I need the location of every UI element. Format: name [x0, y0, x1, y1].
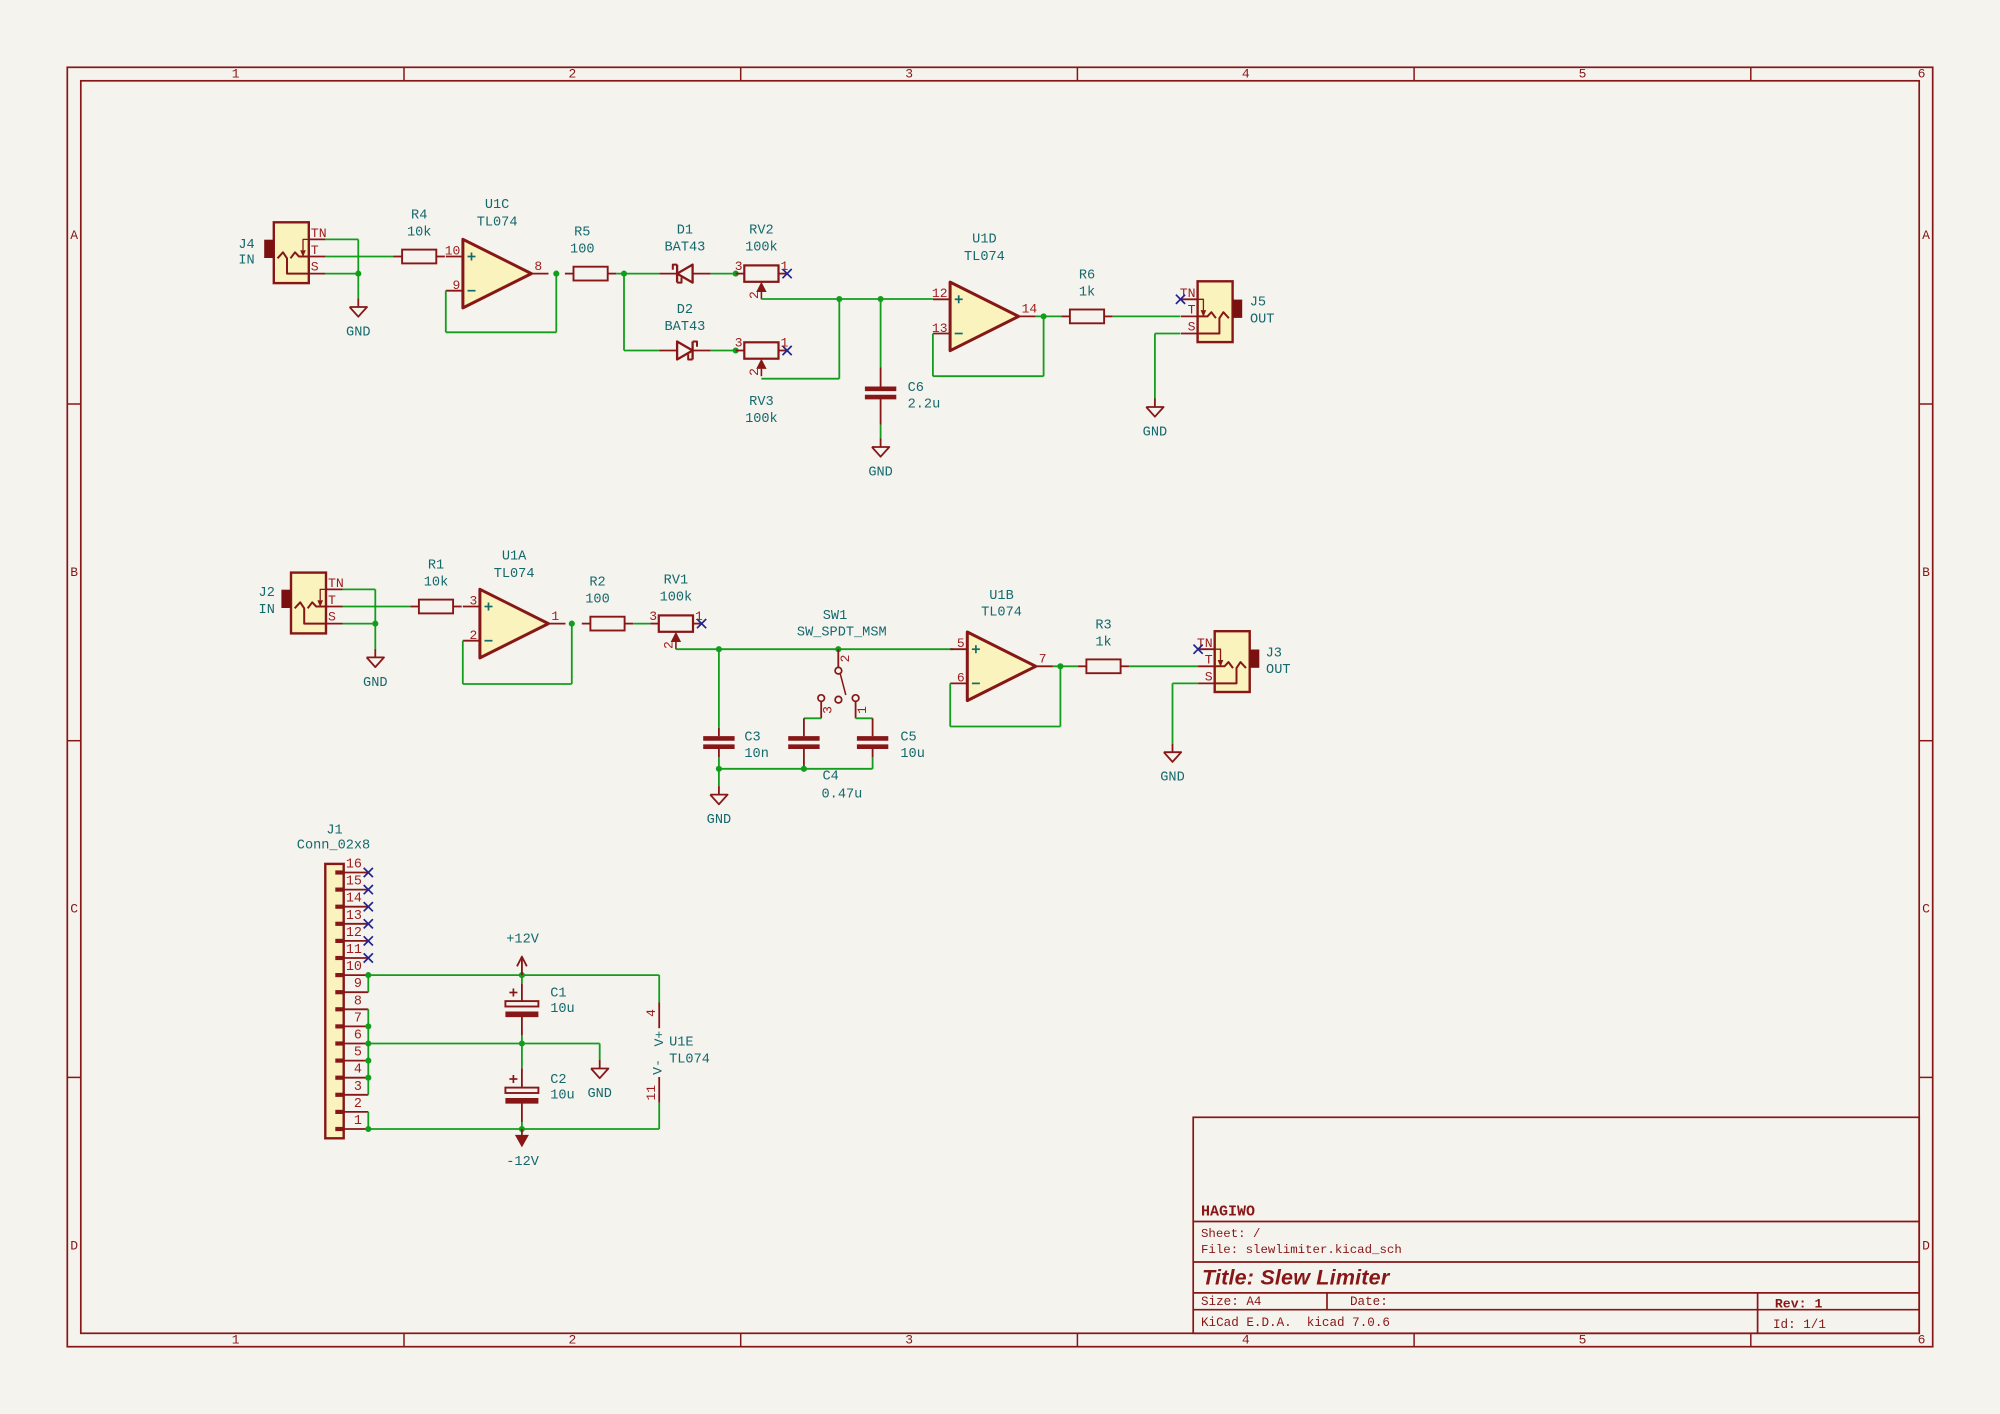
- svg-text:B: B: [1922, 565, 1930, 580]
- svg-text:2: 2: [838, 655, 853, 663]
- svg-text:4: 4: [1242, 1333, 1250, 1348]
- svg-text:+12V: +12V: [506, 933, 539, 948]
- svg-text:7: 7: [1039, 652, 1047, 667]
- svg-text:T: T: [311, 243, 319, 258]
- svg-text:3: 3: [905, 1333, 913, 1348]
- svg-text:U1B: U1B: [989, 589, 1013, 604]
- svg-text:6: 6: [957, 671, 965, 686]
- svg-text:2: 2: [568, 1333, 576, 1348]
- svg-text:RV1: RV1: [664, 574, 688, 589]
- svg-text:B: B: [70, 565, 78, 580]
- svg-text:6: 6: [354, 1029, 362, 1044]
- svg-text:3: 3: [469, 593, 477, 608]
- svg-text:U1C: U1C: [485, 198, 509, 213]
- svg-text:5: 5: [1579, 1333, 1587, 1348]
- svg-text:2: 2: [469, 628, 477, 643]
- svg-text:Title: Slew Limiter: Title: Slew Limiter: [1202, 1265, 1391, 1289]
- svg-text:12: 12: [932, 286, 948, 301]
- svg-text:1: 1: [695, 609, 703, 624]
- svg-text:S: S: [311, 260, 319, 275]
- svg-text:C: C: [1922, 902, 1930, 917]
- svg-text:T: T: [1205, 653, 1213, 668]
- svg-text:7: 7: [354, 1011, 362, 1026]
- svg-text:2: 2: [747, 368, 762, 376]
- svg-text:16: 16: [346, 858, 362, 873]
- svg-text:OUT: OUT: [1266, 663, 1290, 678]
- svg-text:TL074: TL074: [964, 250, 1005, 265]
- svg-text:RV2: RV2: [749, 224, 773, 239]
- svg-text:4: 4: [644, 1009, 659, 1017]
- svg-text:T: T: [1188, 303, 1196, 318]
- svg-text:3: 3: [905, 67, 913, 82]
- svg-text:10u: 10u: [550, 1002, 574, 1017]
- svg-text:GND: GND: [868, 466, 892, 481]
- svg-text:3: 3: [735, 336, 743, 351]
- svg-text:1: 1: [781, 259, 789, 274]
- svg-text:10k: 10k: [407, 226, 431, 241]
- svg-text:D: D: [1922, 1238, 1930, 1253]
- svg-text:9: 9: [354, 977, 362, 992]
- svg-text:R4: R4: [411, 209, 427, 224]
- svg-text:10n: 10n: [744, 747, 768, 762]
- svg-text:100: 100: [570, 243, 594, 258]
- svg-text:S: S: [328, 610, 336, 625]
- svg-text:T: T: [328, 593, 336, 608]
- svg-text:U1D: U1D: [972, 233, 996, 248]
- svg-text:-12V: -12V: [506, 1155, 539, 1170]
- svg-text:6: 6: [1918, 1333, 1926, 1348]
- svg-text:13: 13: [346, 909, 362, 924]
- svg-text:9: 9: [452, 278, 460, 293]
- svg-text:10: 10: [445, 243, 461, 258]
- svg-text:IN: IN: [259, 603, 275, 618]
- svg-text:13: 13: [932, 321, 948, 336]
- svg-text:5: 5: [957, 636, 965, 651]
- svg-text:Id: 1/1: Id: 1/1: [1773, 1318, 1826, 1332]
- svg-text:1: 1: [855, 706, 870, 714]
- svg-text:3: 3: [649, 609, 657, 624]
- svg-text:GND: GND: [1143, 426, 1167, 441]
- svg-text:HAGIWO: HAGIWO: [1201, 1204, 1255, 1221]
- svg-text:GND: GND: [346, 326, 370, 341]
- svg-text:1k: 1k: [1095, 635, 1111, 650]
- svg-text:A: A: [1922, 228, 1930, 243]
- svg-text:4: 4: [1242, 67, 1250, 82]
- svg-text:S: S: [1188, 320, 1196, 335]
- svg-text:C6: C6: [908, 381, 924, 396]
- svg-text:4: 4: [354, 1063, 362, 1078]
- svg-text:Conn_02x8: Conn_02x8: [297, 839, 370, 854]
- svg-text:TL074: TL074: [494, 567, 535, 582]
- svg-text:V+: V+: [652, 1031, 667, 1047]
- svg-text:5: 5: [354, 1046, 362, 1061]
- svg-text:TN: TN: [311, 226, 327, 241]
- svg-text:11: 11: [644, 1085, 659, 1101]
- svg-text:Date:: Date:: [1350, 1295, 1388, 1309]
- svg-text:TL074: TL074: [477, 215, 518, 230]
- svg-text:C: C: [70, 902, 78, 917]
- svg-text:R6: R6: [1079, 268, 1095, 283]
- svg-text:KiCad E.D.A. kicad 7.0.6: KiCad E.D.A. kicad 7.0.6: [1201, 1316, 1390, 1330]
- svg-text:10u: 10u: [900, 747, 924, 762]
- svg-text:1: 1: [232, 67, 240, 82]
- svg-text:J4: J4: [238, 238, 254, 253]
- svg-text:OUT: OUT: [1250, 313, 1274, 328]
- svg-text:3: 3: [735, 259, 743, 274]
- svg-text:1: 1: [354, 1114, 362, 1129]
- svg-text:S: S: [1205, 670, 1213, 685]
- svg-text:C3: C3: [744, 731, 760, 746]
- svg-text:C2: C2: [550, 1073, 566, 1088]
- svg-text:2: 2: [568, 67, 576, 82]
- svg-text:BAT43: BAT43: [665, 320, 706, 335]
- svg-text:J5: J5: [1250, 295, 1266, 310]
- svg-text:1: 1: [232, 1333, 240, 1348]
- svg-text:U1E: U1E: [669, 1035, 693, 1050]
- svg-text:6: 6: [1918, 67, 1926, 82]
- svg-text:R1: R1: [428, 559, 444, 574]
- svg-text:TN: TN: [328, 576, 344, 591]
- svg-text:SW1: SW1: [823, 609, 847, 624]
- svg-text:15: 15: [346, 875, 362, 890]
- svg-text:A: A: [70, 228, 78, 243]
- svg-text:100k: 100k: [745, 241, 778, 256]
- svg-text:1: 1: [551, 609, 559, 624]
- svg-text:2: 2: [662, 641, 677, 649]
- svg-text:C1: C1: [550, 986, 566, 1001]
- svg-text:J1: J1: [326, 824, 342, 839]
- svg-text:0.47u: 0.47u: [822, 787, 863, 802]
- svg-text:8: 8: [534, 259, 542, 274]
- svg-text:RV3: RV3: [749, 395, 773, 410]
- svg-text:R3: R3: [1095, 618, 1111, 633]
- svg-text:U1A: U1A: [502, 550, 527, 565]
- svg-text:R2: R2: [589, 576, 605, 591]
- svg-text:2: 2: [747, 291, 762, 299]
- svg-text:10: 10: [346, 960, 362, 975]
- svg-text:J3: J3: [1266, 646, 1282, 661]
- svg-text:D: D: [70, 1238, 78, 1253]
- svg-text:V-: V-: [650, 1059, 665, 1075]
- svg-text:BAT43: BAT43: [665, 241, 706, 256]
- svg-text:14: 14: [1022, 302, 1038, 317]
- svg-text:SW_SPDT_MSM: SW_SPDT_MSM: [797, 625, 887, 640]
- svg-text:1k: 1k: [1079, 285, 1095, 300]
- svg-text:C4: C4: [823, 769, 839, 784]
- svg-text:GND: GND: [587, 1087, 611, 1102]
- svg-text:8: 8: [354, 994, 362, 1009]
- svg-text:14: 14: [346, 892, 362, 907]
- svg-text:C5: C5: [900, 731, 916, 746]
- svg-text:GND: GND: [1160, 771, 1184, 786]
- svg-text:Sheet: /: Sheet: /: [1201, 1227, 1261, 1241]
- svg-text:File: slewlimiter.kicad_sch: File: slewlimiter.kicad_sch: [1201, 1243, 1402, 1257]
- svg-text:100: 100: [585, 593, 609, 608]
- svg-text:3: 3: [354, 1080, 362, 1095]
- svg-text:100k: 100k: [660, 591, 693, 606]
- svg-text:5: 5: [1579, 67, 1587, 82]
- svg-text:12: 12: [346, 926, 362, 941]
- svg-text:TL074: TL074: [669, 1052, 710, 1067]
- svg-text:Size: A4: Size: A4: [1201, 1295, 1261, 1309]
- svg-text:TL074: TL074: [981, 606, 1022, 621]
- svg-text:IN: IN: [238, 254, 254, 269]
- svg-text:11: 11: [346, 943, 362, 958]
- svg-text:D2: D2: [677, 303, 693, 318]
- svg-text:GND: GND: [363, 676, 387, 691]
- svg-text:GND: GND: [707, 813, 731, 828]
- svg-text:D1: D1: [677, 224, 693, 239]
- svg-text:10k: 10k: [424, 576, 448, 591]
- svg-text:2: 2: [354, 1097, 362, 1112]
- svg-text:100k: 100k: [745, 412, 778, 427]
- svg-text:3: 3: [820, 706, 835, 714]
- svg-text:1: 1: [781, 336, 789, 351]
- svg-text:J2: J2: [259, 586, 275, 601]
- svg-text:R5: R5: [574, 226, 590, 241]
- svg-text:10u: 10u: [550, 1088, 574, 1103]
- svg-text:Rev: 1: Rev: 1: [1775, 1297, 1823, 1312]
- svg-text:2.2u: 2.2u: [908, 397, 941, 412]
